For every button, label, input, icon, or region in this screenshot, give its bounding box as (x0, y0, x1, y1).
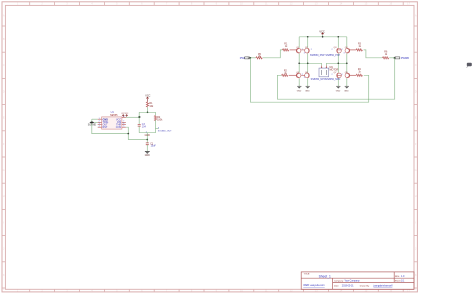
svg-text:GND: GND (145, 155, 150, 157)
svg-text:3: 3 (304, 77, 305, 79)
resistor R2 (vertical) (154, 115, 163, 121)
svg-text:E: E (3, 116, 5, 120)
VCC flag small B (125, 113, 129, 117)
svg-text:I: I (415, 220, 416, 224)
wire ring left edge upper (138, 112, 140, 124)
svg-text:G: G (3, 168, 5, 172)
svg-text:3: 3 (344, 52, 345, 54)
svg-text:Q3: Q3 (334, 47, 338, 49)
U1 left pin names (103, 118, 109, 129)
wire emitter drops to ground (299, 78, 347, 86)
svg-text:H: H (415, 194, 417, 198)
svg-text:L: L (3, 287, 5, 291)
svg-text:NE555: NE555 (110, 114, 118, 117)
svg-text:K: K (415, 273, 417, 277)
svg-text:VCC: VCC (125, 113, 129, 115)
svg-text:E: E (415, 116, 417, 120)
wire R6 to riser (364, 50, 383, 58)
svg-text:2: 2 (332, 49, 333, 51)
U1 right pin names (116, 118, 122, 129)
svg-text:J: J (3, 247, 5, 251)
svg-text:2: 2 (332, 74, 333, 76)
svg-text:1k: 1k (285, 46, 288, 48)
transistor Q6 (NPN bottom-left inner) (305, 72, 310, 78)
svg-text:B: B (3, 37, 5, 41)
svg-text:juangabrielramosff: juangabrielramosff (373, 284, 393, 287)
wire portA to R5 (250, 57, 256, 59)
svg-text:PWMB: PWMB (401, 56, 409, 60)
ground GND left circuit (145, 151, 150, 157)
svg-text:A: A (415, 14, 417, 18)
svg-text:Company:: Company: (334, 280, 344, 282)
wire mid rail right (OUTB) (326, 62, 346, 64)
svg-text:GND: GND (305, 90, 310, 92)
wire C1 to ground (146, 145, 148, 152)
svg-text:Q7: Q7 (334, 72, 338, 74)
svg-text:C: C (3, 63, 5, 67)
junction dot rail vcc (322, 36, 324, 38)
svg-text:Drawn By:: Drawn By: (360, 284, 370, 287)
svg-text:G: G (415, 168, 417, 172)
wire R2b to Q5/Q6 bases (289, 74, 297, 76)
svg-text:D: D (415, 89, 417, 93)
wire portB to R6 (389, 57, 394, 59)
wire R3 to Q3/Q4 bases (349, 49, 356, 51)
wire R5 to riser (263, 50, 283, 58)
VCC net flag left circuit (145, 95, 150, 102)
svg-text:A: A (3, 14, 5, 18)
wire ring bottom to C1 (146, 133, 148, 143)
svg-text:3: 3 (304, 52, 305, 54)
junction dot ring left (138, 116, 140, 118)
svg-text:VCC: VCC (319, 29, 325, 33)
svg-text:GND: GND (344, 90, 349, 92)
port PWMB (393, 56, 409, 60)
junction dot cap node (146, 139, 148, 141)
svg-text:RST: RST (103, 126, 108, 129)
svg-text:C: C (415, 63, 417, 67)
wire bottom run to cap node (128, 134, 147, 140)
port P1 SOUND (88, 122, 97, 127)
resistor R1 (vertical) (146, 102, 154, 108)
svg-text:2: 2 (302, 49, 303, 51)
wire port down to bottom run (92, 123, 129, 133)
svg-text:2019-05-31: 2019-05-31 (342, 285, 354, 287)
wire R1b to Q1/Q2 bases (290, 49, 297, 51)
svg-text:1k: 1k (359, 46, 362, 48)
svg-text:SOUND_OUT: SOUND_OUT (158, 130, 172, 132)
junction dot rail left inner (307, 36, 309, 38)
wire ring right edge upper (155, 112, 157, 115)
ground GND q7 (336, 86, 341, 92)
wire mid rail left (OUTA) (299, 62, 321, 64)
svg-text:CON: CON (116, 126, 122, 129)
wire portB cross drop (277, 58, 394, 99)
resistor R2b bottom-left base (282, 71, 288, 77)
svg-text:J: J (415, 247, 417, 251)
svg-text:100k: 100k (157, 118, 163, 121)
svg-text:F: F (415, 142, 417, 146)
ground GND q6 (305, 86, 310, 92)
transistor Q2 (PNP top-left inner) (305, 47, 310, 53)
svg-text:REV:: REV: (395, 276, 400, 278)
VCC net flag bridge (319, 29, 325, 35)
svg-text:1k: 1k (385, 54, 388, 56)
svg-text:VCC: VCC (145, 95, 150, 98)
ground GND q5 (297, 86, 302, 92)
wire VCC stub (322, 35, 324, 37)
junction dot port B (394, 57, 396, 59)
wire collector rises bottom row (299, 63, 347, 72)
op-amp U1 NE555 body (102, 111, 122, 129)
svg-text:3: 3 (158, 128, 160, 130)
svg-text:I: I (3, 220, 4, 224)
junction dot ring top (147, 111, 149, 113)
svg-text:H: H (3, 194, 5, 198)
svg-text:10k: 10k (149, 105, 154, 108)
U1 pin numbers (99, 116, 125, 128)
wire ring right edge lower (155, 120, 157, 133)
wire output stub (156, 128, 159, 130)
capacitor C3 (138, 123, 147, 129)
transistor Q1 (PNP top-left outer) (296, 47, 301, 53)
svg-text:Date:: Date: (334, 284, 339, 287)
wire R1 to ring top (147, 107, 149, 112)
transistor Q3 (PNP top-right inner) (334, 47, 342, 53)
svg-text:Sheet_1: Sheet_1 (319, 275, 331, 279)
wire emitter drops top row (299, 37, 347, 48)
stray gray mark (467, 63, 472, 68)
junction dot rail right inner (337, 36, 339, 38)
resistor R5 (256, 54, 262, 59)
resistor R6 (382, 52, 388, 59)
svg-text:2: 2 (302, 74, 303, 76)
resistor R4 bottom-right base (356, 69, 362, 76)
svg-text:K: K (3, 273, 5, 277)
svg-text:1k: 1k (358, 72, 361, 74)
VCC flag small A (121, 113, 125, 117)
wire top rail (299, 36, 347, 38)
wire ring left edge lower (138, 126, 140, 133)
junction dot port A (250, 57, 252, 59)
junction dot bottom run (127, 133, 129, 135)
resistor R1b top-left base (282, 44, 288, 51)
svg-text:2: 2 (342, 74, 343, 76)
wire collector drops top row (299, 53, 347, 63)
svg-text:10uF: 10uF (151, 146, 157, 148)
svg-text:B: B (415, 37, 417, 41)
svg-text:Your Company: Your Company (344, 279, 360, 282)
svg-text:SS8550_PNP: SS8550_PNP (310, 54, 325, 57)
svg-text:L: L (415, 287, 417, 291)
svg-text:TITLE:: TITLE: (304, 274, 311, 276)
wire U1 pin5 down (126, 127, 128, 133)
svg-text:1k: 1k (284, 73, 287, 75)
transistor Q8 (NPN bottom-right outer) (345, 72, 350, 78)
svg-text:D: D (3, 89, 5, 93)
wire portA cross drop (250, 58, 368, 102)
junction dots mid rail (298, 62, 300, 64)
transistor Q7 (NPN bottom-right inner) (334, 72, 342, 78)
svg-text:GND: GND (297, 90, 302, 92)
pin numbers top pairs (302, 49, 345, 54)
transistor Q4 (PNP top-right outer) (345, 47, 350, 53)
svg-text:104: 104 (142, 126, 147, 129)
U1 pin stubs (98, 117, 126, 127)
capacitor C1 (146, 143, 157, 148)
svg-text:1.0: 1.0 (401, 275, 405, 278)
wire port tip to U1 pin3 row (94, 121, 98, 123)
wire ring bottom edge (139, 132, 155, 134)
svg-text:2: 2 (311, 49, 312, 51)
wire port to U1 pin2 (92, 118, 98, 120)
wire U1 pin7 to node ring (126, 116, 139, 118)
pin numbers bottom pairs (302, 74, 343, 79)
motor M1 (319, 63, 339, 76)
wire port up stub (91, 119, 93, 121)
svg-text:2: 2 (342, 49, 343, 51)
svg-text:WEB: easyeda.com: WEB: easyeda.com (303, 284, 324, 287)
port PWMA (240, 56, 250, 60)
wire ring top edge (139, 111, 155, 113)
wire R4 to Q7/Q8 bases (349, 74, 356, 76)
node SOUND_OUT label (158, 128, 172, 133)
ground GND q8 (344, 86, 349, 92)
resistor R3 top-right base (356, 44, 362, 51)
svg-text:GND: GND (336, 90, 341, 92)
svg-text:SS8050_NPN: SS8050_NPN (311, 78, 326, 81)
svg-text:F: F (3, 142, 5, 146)
transistor Q5 (NPN bottom-left outer) (296, 72, 301, 78)
